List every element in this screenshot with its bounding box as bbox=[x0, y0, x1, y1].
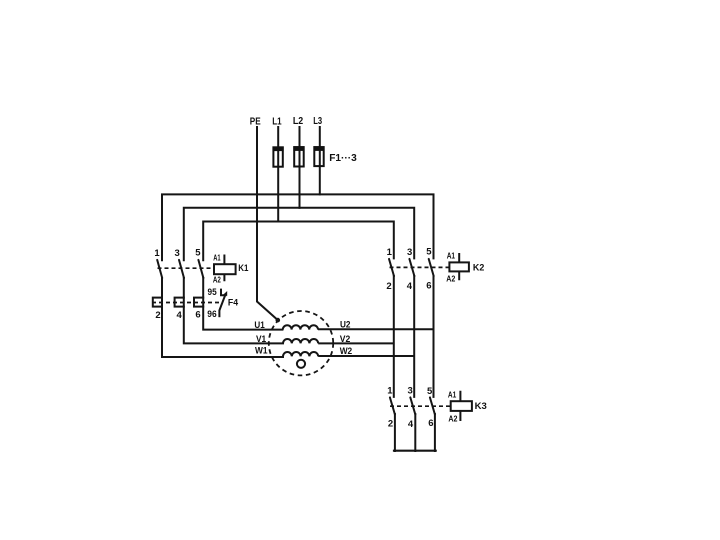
svg-text:5: 5 bbox=[427, 386, 433, 397]
svg-text:A2: A2 bbox=[213, 274, 221, 284]
svg-text:1: 1 bbox=[154, 248, 160, 259]
svg-text:5: 5 bbox=[426, 247, 432, 258]
svg-text:L1: L1 bbox=[272, 116, 282, 128]
svg-text:U1: U1 bbox=[254, 320, 264, 330]
svg-text:5: 5 bbox=[195, 248, 201, 259]
svg-text:3: 3 bbox=[408, 385, 413, 396]
svg-text:V1: V1 bbox=[256, 334, 266, 344]
svg-text:F1···3: F1···3 bbox=[329, 152, 357, 164]
svg-text:K2: K2 bbox=[473, 262, 484, 273]
svg-text:A1: A1 bbox=[447, 251, 456, 261]
svg-text:4: 4 bbox=[176, 310, 182, 321]
svg-text:K3: K3 bbox=[475, 401, 487, 412]
svg-text:W2: W2 bbox=[340, 346, 353, 356]
svg-text:2: 2 bbox=[155, 310, 160, 321]
svg-text:A1: A1 bbox=[448, 390, 457, 400]
svg-text:96: 96 bbox=[207, 309, 216, 320]
svg-text:L3: L3 bbox=[313, 115, 322, 127]
svg-text:2: 2 bbox=[386, 281, 391, 292]
svg-text:A1: A1 bbox=[213, 252, 221, 262]
svg-text:6: 6 bbox=[428, 418, 433, 429]
svg-text:95: 95 bbox=[208, 287, 218, 298]
svg-text:W1: W1 bbox=[255, 346, 268, 356]
svg-text:1: 1 bbox=[387, 385, 393, 396]
svg-text:F4: F4 bbox=[228, 297, 239, 308]
svg-text:2: 2 bbox=[388, 419, 393, 430]
svg-text:4: 4 bbox=[408, 419, 414, 430]
svg-text:6: 6 bbox=[195, 310, 200, 321]
svg-text:V2: V2 bbox=[340, 334, 351, 344]
svg-text:K1: K1 bbox=[238, 263, 249, 274]
svg-text:U2: U2 bbox=[340, 320, 351, 330]
svg-text:3: 3 bbox=[407, 247, 412, 258]
svg-text:4: 4 bbox=[407, 281, 413, 292]
svg-text:L2: L2 bbox=[293, 115, 303, 127]
svg-text:1: 1 bbox=[387, 247, 393, 258]
svg-text:PE: PE bbox=[250, 116, 261, 128]
svg-text:6: 6 bbox=[426, 281, 431, 292]
svg-text:3: 3 bbox=[174, 248, 179, 259]
svg-text:A2: A2 bbox=[446, 274, 455, 284]
svg-text:A2: A2 bbox=[448, 413, 457, 423]
